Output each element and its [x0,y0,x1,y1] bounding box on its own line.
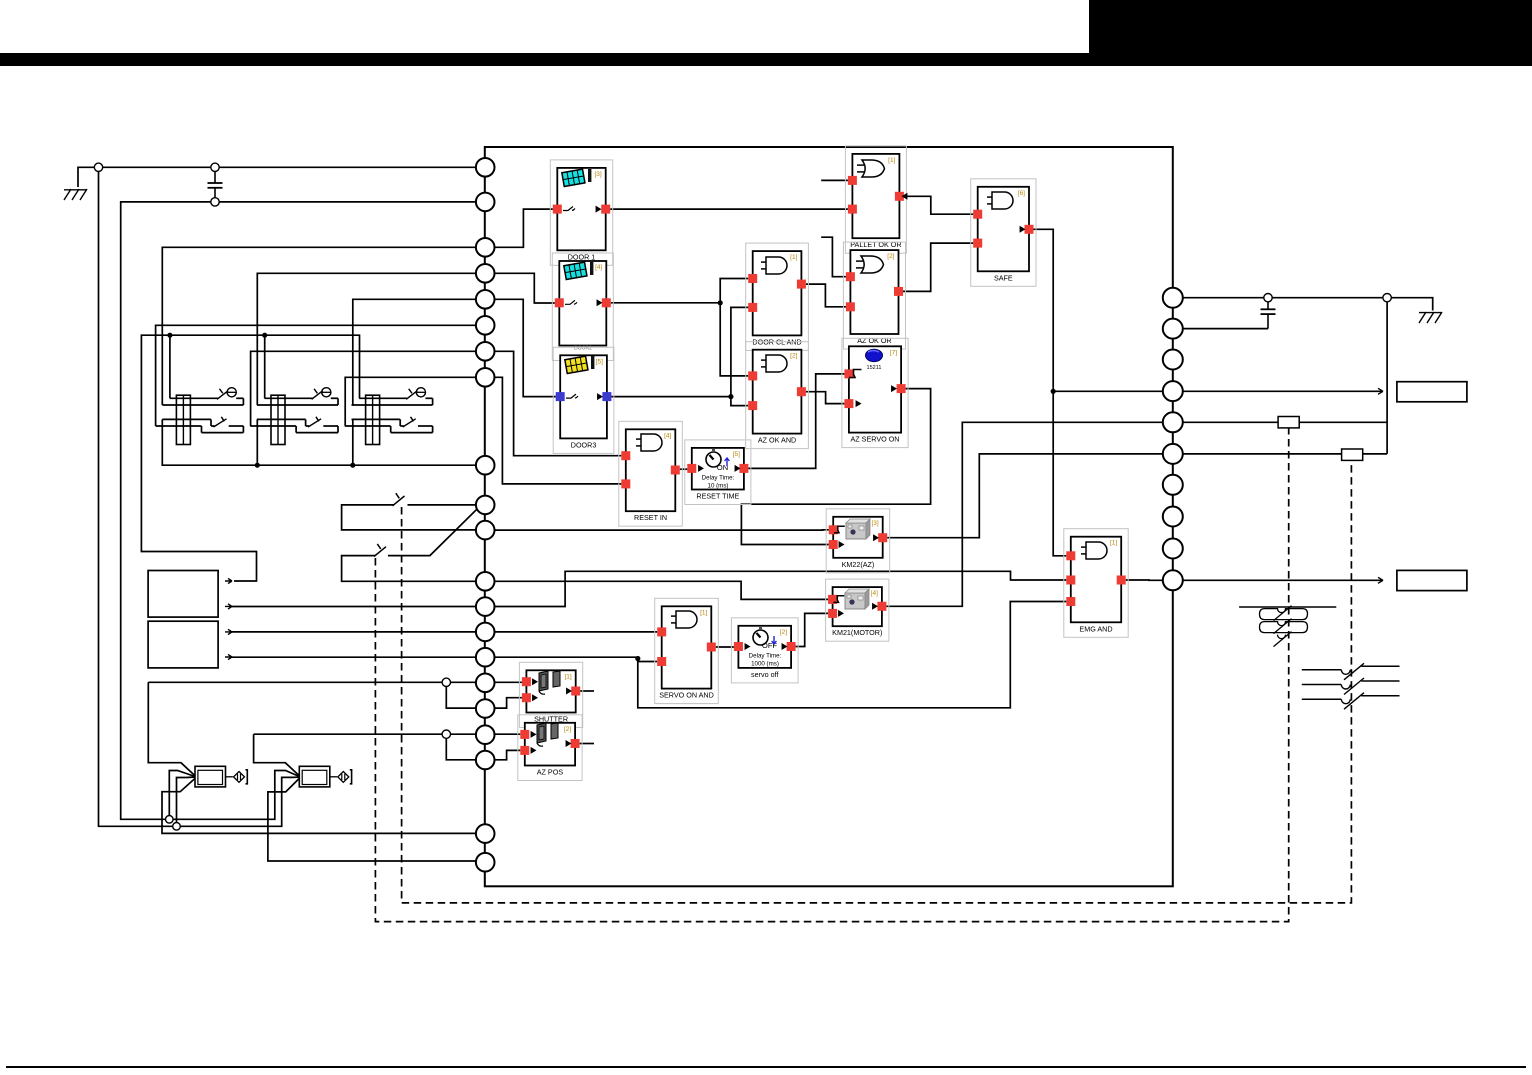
wire muting bus [148,681,475,683]
capacitor C1 [214,172,216,184]
wire SERVO ON AND out to servo off [716,646,734,648]
wire ground left [78,167,476,187]
label box OUT2 [1397,570,1467,590]
terminal L5 [476,290,495,309]
wire AZ OK OR out to SAFE [903,243,973,291]
svg-text:KM22(AZ): KM22(AZ) [842,560,875,569]
wire EMG AND out to T28 [1126,579,1163,581]
terminal L6 [476,316,495,335]
function block EMG AND [1064,529,1128,638]
function block DOOR2 [552,253,613,361]
terminal R5 [1163,412,1183,432]
svg-text:[1]: [1] [1110,540,1117,547]
node T15 branch [635,656,640,661]
wire T5 to switch3 feedA [353,299,476,405]
terminal L20 [476,824,495,843]
wire collector bus [162,419,475,465]
wire T6 to switch1 feedB [156,325,476,426]
terminal L2 [476,193,495,212]
wire AZ POS out stub [580,743,594,745]
function block SERVO ON AND [655,598,719,703]
svg-text:[3]: [3] [871,520,878,527]
terminal R6 [1163,444,1183,464]
wire T28 to label [1183,579,1383,581]
wire sensor1 output [162,778,476,833]
wire T2 to sensor bus A [121,202,476,819]
terminal R2 [1163,319,1183,339]
function block AZ OK OR [843,242,905,349]
node feedC sw1 [169,335,171,398]
wire T3 to DOOR1 [495,209,553,247]
dashed EDM link 2 [375,428,1288,922]
node SAFE branch [1051,389,1056,394]
wire T19 to AZ POS in2 [495,750,521,759]
svg-text:1000 (ms): 1000 (ms) [751,661,779,668]
function block DOOR CL AND [746,243,809,350]
wire T8 to switch3 feedB [345,377,475,426]
svg-text:Delay Time:: Delay Time: [702,475,735,482]
node muting branch [442,678,450,686]
light curtain sensor1 [195,766,247,787]
wire B2a to T14 [232,631,476,633]
terminal R10 [1163,570,1183,590]
terminal R4 [1163,381,1183,401]
wire RESET TIME out to AZ SERVO ON [748,374,844,469]
pushbutton PB2 [342,507,479,581]
function block AZ SERVO ON [842,338,908,447]
svg-text:Delay Time:: Delay Time: [749,653,782,660]
wire T11 to KM22 in1 [495,529,829,531]
device box B2 [148,621,218,668]
svg-text:[4]: [4] [664,432,671,439]
function block PALLET OK OR [845,146,907,253]
svg-text:[3]: [3] [594,171,601,178]
wire PALLET out to SAFE [904,196,973,214]
function block KM21(MOTOR) [826,579,889,641]
capacitor C2 [1267,302,1269,309]
svg-text:RESET TIME: RESET TIME [696,492,739,501]
svg-text:AZ OK AND: AZ OK AND [758,436,796,445]
function block RESET IN [619,421,683,526]
wire SAFE out [1034,229,1067,556]
wire T1 to sensor bus B [99,167,300,826]
svg-text:[1]: [1] [888,157,895,164]
svg-text:[7]: [7] [890,349,897,356]
wire T4 to DOOR2 [495,273,555,303]
svg-text:SERVO ON AND: SERVO ON AND [659,691,714,700]
wire SHUTTER out stub [580,690,594,692]
terminal L9 [476,456,495,475]
terminal R8 [1163,507,1183,527]
svg-text:EMG AND: EMG AND [1079,624,1112,633]
svg-text:15211: 15211 [867,365,882,371]
limit switch S2 [250,388,338,445]
wire RESET IN out to RESET TIME [680,468,688,470]
wire T15 to SERVO ON AND in2 [495,657,657,661]
light curtain sensor2 [299,766,351,787]
node collector sw2 [256,419,258,465]
wire DOOR1 out to PALLET OK OR [610,208,848,210]
wire T17 to SHUTTER in2 [495,698,522,708]
wire T13 to EMG AND in2 [495,571,1067,606]
node feedC sw2 [264,335,266,398]
ground symbol left [64,189,87,200]
wire T16 to SHUTTER in1 [495,681,522,683]
svg-text:[5]: [5] [733,451,740,458]
wire pos bus [254,733,476,735]
EDM box K2 [1342,449,1363,460]
svg-text:[1]: [1] [564,673,571,680]
arrow B1b [225,604,232,609]
label box OUT1 [1397,382,1467,402]
terminal L19 [476,751,495,770]
wire feedback distribution [141,335,359,581]
svg-text:[2]: [2] [887,253,894,260]
terminal L17 [476,699,495,718]
function block servo off [731,618,798,683]
svg-text:[1]: [1] [790,254,797,261]
terminal L21 [476,853,495,872]
wire T12 to KM21 in1 [495,581,828,599]
wire T18 to AZ POS in1 [495,733,521,735]
svg-text:DOOR2: DOOR2 [574,346,592,352]
wire stub PALLET in1 [821,179,848,181]
wire OSSD1 bus [148,682,195,776]
function block AZ OK AND [746,342,809,449]
svg-text:[2]: [2] [564,726,571,733]
terminal L12 [476,572,495,591]
limit switch S1 [156,388,244,445]
svg-text:[2]: [2] [780,629,787,636]
wire DOOR2 out [611,302,720,304]
wire AZ SERVO ON out to KM22 [741,389,930,545]
terminal R9 [1163,539,1183,559]
function block SAFE [971,179,1036,286]
node pos branch [442,730,450,738]
function block SHUTTER [519,662,582,727]
svg-text:AZ POS: AZ POS [537,768,564,777]
svg-text:RESET IN: RESET IN [634,513,667,522]
ground symbol right [1419,312,1442,323]
contactor KM21 main contacts [1302,663,1400,709]
footer rule [6,1066,1526,1068]
svg-text:SAFE: SAFE [994,273,1013,282]
wire OSSD2 bus [254,734,300,776]
device box B1 [148,571,218,618]
terminal R1 [1163,288,1183,308]
svg-text:PALLET OK OR: PALLET OK OR [850,240,901,249]
wire B1b to T13 [232,606,476,608]
limit switch S3 [345,388,433,445]
wire T3 to switch1 feedA [162,247,475,405]
wire 0V drop [1386,302,1388,454]
terminal L16 [476,674,495,693]
wire T24 right [1183,421,1387,423]
pushbutton PB1 [342,493,476,530]
terminal L18 [476,725,495,744]
wire T22 right [1183,328,1268,330]
wire T25 right [1183,453,1387,455]
svg-text:10 (ms): 10 (ms) [708,483,729,490]
wire T8 to RESET IN 2 [495,377,622,484]
wire servo off out to KM21 [796,613,829,646]
svg-text:[5]: [5] [596,358,603,365]
terminal L4 [476,264,495,283]
svg-text:[2]: [2] [790,353,797,360]
terminal L11 [476,521,495,540]
terminal R3 [1163,350,1183,370]
wire T5 to DOOR3 [495,299,556,396]
svg-text:KM21(MOTOR): KM21(MOTOR) [832,628,882,637]
svg-text:[6]: [6] [1018,190,1025,197]
arrow B2a [225,629,232,634]
terminal L3 [476,238,495,257]
terminal L13 [476,597,495,616]
wire B2b to T15 [232,656,476,658]
wire sensor1 branch A [169,771,195,820]
terminal L10 [476,496,495,515]
function block RESET TIME [685,440,751,505]
svg-text:AZ SERVO ON: AZ SERVO ON [851,435,900,444]
wire DOOR3 out [611,396,731,398]
wire T4 to switch2 feedA [257,273,475,405]
wire T7 to switch2 feedB [251,351,476,426]
terminal L15 [476,648,495,667]
terminal L8 [476,368,495,387]
terminal R7 [1163,475,1183,495]
wire T14 to SERVO ON AND in1 [495,631,657,633]
header block [1089,0,1532,66]
wire DOOR CL AND out to AZ OK OR [806,284,846,307]
svg-text:servo off: servo off [751,670,778,679]
wire KM22 out to T25 [887,454,1163,538]
controller frame [485,147,1173,886]
function block AZ POS [518,715,582,781]
svg-text:AZ OK OR: AZ OK OR [857,336,891,345]
EDM box K1 [1278,417,1299,428]
wire KM21 out to T24 [886,422,1162,606]
title bar [0,53,1532,66]
arrow B1a [225,578,232,583]
function block KM22(AZ) [826,509,890,573]
contactor KM22 aux contacts [1239,606,1336,647]
wire T23 to label [1183,390,1383,392]
svg-text:DOOR 1: DOOR 1 [568,252,596,261]
node collector sw3 [352,419,354,465]
svg-text:[1]: [1] [700,609,707,616]
arrow B2b [225,654,232,659]
function block DOOR3 [553,347,614,453]
svg-text:[4]: [4] [871,590,878,597]
wire sensor1 branch B [177,777,196,826]
svg-text:DOOR3: DOOR3 [571,440,597,449]
function block DOOR 1 [550,160,612,265]
wire stub AZ OK OR in1 [821,237,846,277]
wire T7 to RESET IN 1 [495,351,622,455]
terminal L14 [476,623,495,642]
terminal L1 [476,158,495,177]
wire 24V right [1183,298,1433,311]
svg-text:[4]: [4] [595,264,602,271]
wire AZ OK AND out to AZ SERVO ON [806,392,845,404]
terminal L7 [476,342,495,361]
wire sensor2 output [268,778,476,861]
dashed EDM link 1 [402,460,1352,903]
